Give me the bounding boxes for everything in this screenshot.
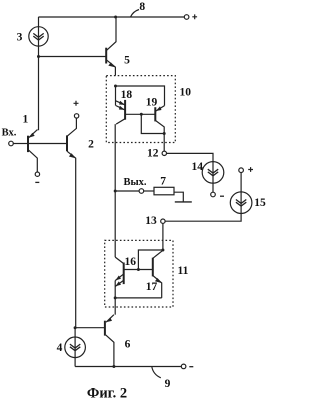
wire input to Q1 base [13, 143, 27, 145]
terminal Вых. [139, 189, 144, 194]
transistor Q6 (PNP) [105, 315, 114, 367]
wire source3 top to rail [38, 17, 40, 27]
svg-text:17: 17 [146, 281, 158, 293]
transistor Q5 (NPN) [106, 17, 116, 76]
current source 15 [230, 192, 252, 214]
wire source15 bottom to node 13 [165, 214, 241, 222]
resistor R7 [154, 187, 174, 195]
terminal + (Q2 collector) [74, 114, 78, 118]
wire box10 left vertical to Q18 emitters [115, 86, 117, 106]
wire Q6 base [75, 327, 105, 329]
svg-text:9: 9 [165, 378, 171, 390]
node junction dot box11 top-right [161, 249, 164, 252]
node junction dot box11 emitters [114, 296, 117, 299]
ground [175, 201, 192, 203]
transistor Q17 (NPN diode-connected) [153, 250, 163, 298]
wire box11 top tie [138, 250, 163, 270]
main vertical wire (Q18 collector - output - Q16 collector) [114, 124, 116, 257]
label + (top right) [192, 14, 197, 19]
wire common emitters box11 [115, 297, 162, 299]
svg-text:7: 7 [160, 175, 166, 187]
svg-text:1: 1 [23, 113, 29, 125]
node junction dot box10 top-left [114, 85, 117, 88]
label - (right of source14 terminal) [220, 195, 224, 197]
node junction dot output [114, 190, 117, 193]
node junction dot below source 3 [37, 55, 40, 58]
svg-text:8: 8 [139, 1, 145, 13]
transistor Q1 (PNP) [28, 130, 67, 172]
label + (right of source15 terminal) [248, 167, 253, 172]
wire node12 to source 14 [167, 153, 214, 161]
svg-text:Вых.: Вых. [123, 177, 146, 188]
transistor Q2 (NPN) [67, 118, 76, 328]
wire box10 top (emitter feed) [116, 86, 165, 106]
svg-text:2: 2 [88, 139, 94, 151]
wire Q16 emitters down [114, 281, 116, 315]
wire source4 bottom to rail [74, 358, 76, 367]
label + (above Q2 terminal) [74, 101, 79, 106]
svg-text:Вх.: Вх. [2, 128, 17, 139]
wire top supply rail (node 8) [38, 16, 184, 18]
svg-text:6: 6 [125, 338, 131, 350]
wire base line Q16-Q17 [124, 269, 153, 271]
svg-text:11: 11 [177, 265, 188, 277]
current source 14 [202, 162, 224, 184]
svg-text:18: 18 [121, 89, 133, 101]
svg-text:5: 5 [124, 55, 130, 67]
wire node down to Q1 emitter [37, 57, 40, 130]
label 9 leader [152, 367, 161, 378]
label 8 leader [131, 10, 140, 18]
wire base tie to collector Q19 [141, 114, 164, 133]
wire node to Q5 base [39, 56, 107, 58]
terminal - (below source 14) [211, 192, 216, 197]
svg-text:4: 4 [57, 342, 63, 354]
wire resistor to ground [174, 192, 183, 202]
svg-text:19: 19 [146, 97, 158, 109]
svg-text:12: 12 [147, 148, 159, 160]
wire bottom rail (node 9) [75, 366, 181, 368]
wire source4 to node [74, 328, 76, 337]
terminal - (bottom right) [181, 364, 186, 369]
terminal + (positive supply, top right) [184, 15, 189, 20]
label - (below Q1 terminal) [35, 181, 39, 183]
current source 3 [29, 27, 48, 46]
node junction dot base tie box10 [140, 113, 143, 116]
wire source14 bottom [212, 183, 214, 192]
wire base line Q18-Q19 [125, 113, 155, 115]
wire source15 top [240, 173, 242, 192]
transistor Q16 (NPN dual emitter) [115, 257, 124, 286]
svg-text:3: 3 [17, 31, 23, 43]
svg-text:15: 15 [254, 197, 266, 209]
svg-text:16: 16 [124, 256, 136, 268]
wire source3 bottom to node [38, 46, 40, 56]
box 10 (dashed current mirror block) [106, 76, 175, 143]
wire output node to terminal [115, 190, 139, 192]
wire node13 down into box 11 [162, 224, 164, 251]
svg-text:Фиг. 2: Фиг. 2 [87, 386, 127, 400]
node junction dot Q6 collector on rail [112, 365, 115, 368]
node junction dot base tie box11 [137, 268, 140, 271]
node junction dot Q19 collector tie [163, 132, 166, 135]
label - (bottom right) [189, 366, 193, 368]
svg-text:14: 14 [191, 161, 203, 173]
node junction dot top rail / Q5 collector [114, 16, 117, 19]
node junction dot source4 top [74, 326, 77, 329]
wire terminal to resistor 7 [144, 190, 154, 192]
terminal + (above source 15) [239, 168, 244, 173]
box 11 (dashed current mirror block) [105, 240, 173, 307]
terminal - (Q1 collector) [35, 172, 39, 176]
svg-text:13: 13 [145, 215, 157, 227]
node 12 terminal [162, 151, 166, 155]
current source 4 [65, 337, 86, 358]
transistor Q19 (PNP diode-connected) [155, 106, 164, 152]
svg-text:10: 10 [179, 86, 191, 98]
transistor Q18 (PNP dual emitter) [116, 100, 125, 124]
input terminal Вх. [9, 141, 14, 146]
node 13 terminal [161, 219, 165, 223]
